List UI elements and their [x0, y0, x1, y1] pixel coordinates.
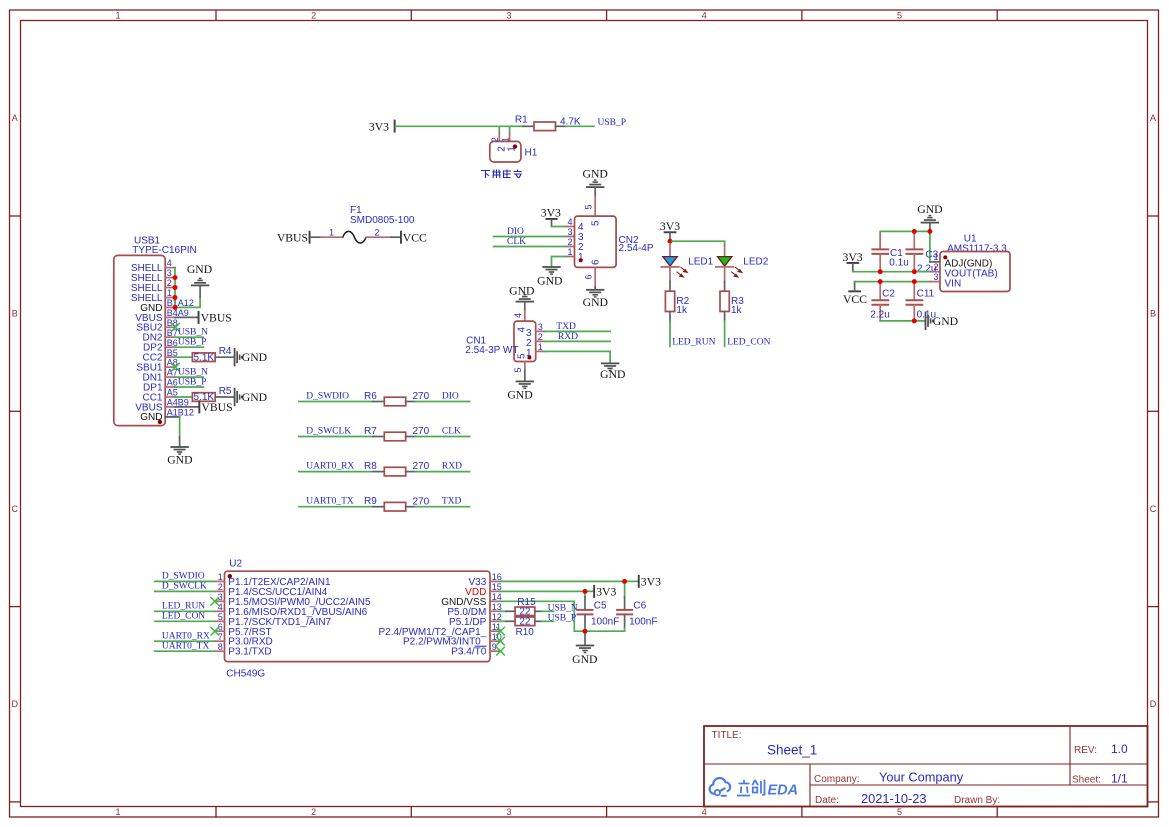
svg-text:1: 1: [501, 137, 511, 142]
ground (R4): [234, 348, 243, 366]
svg-text:UART0_RX: UART0_RX: [162, 631, 210, 641]
svg-text:C: C: [1150, 504, 1157, 514]
svg-text:VBUS: VBUS: [201, 311, 232, 324]
wire DN2 / net USB_N: [175, 336, 203, 338]
connector CN2 2.54-4P: [594, 197, 596, 216]
svg-text:2: 2: [538, 332, 543, 342]
svg-text:R8: R8: [364, 461, 377, 472]
svg-text:270: 270: [413, 426, 430, 437]
svg-text:4: 4: [513, 313, 523, 318]
svg-text:3: 3: [506, 807, 511, 817]
svg-text:4: 4: [702, 11, 707, 21]
svg-text:100nF: 100nF: [591, 616, 619, 627]
svg-text:14: 14: [492, 592, 502, 602]
ground symbol (USB1 shell): [199, 286, 201, 297]
svg-text:VBUS: VBUS: [201, 401, 232, 414]
svg-text:Company:: Company:: [814, 774, 860, 785]
svg-text:B1A12: B1A12: [167, 298, 194, 308]
svg-text:16: 16: [492, 572, 502, 582]
svg-text:R15: R15: [517, 597, 536, 608]
svg-text:5: 5: [584, 204, 594, 209]
svg-text:GND: GND: [583, 296, 608, 309]
wire to net LED_RUN: [669, 321, 671, 347]
svg-text:CLK: CLK: [442, 427, 461, 437]
no-connect U2 pin6: [211, 627, 220, 636]
wire LED_CON (U2 pin5): [155, 620, 215, 622]
svg-text:B: B: [12, 309, 18, 319]
svg-text:1k: 1k: [731, 305, 743, 316]
svg-text:H1: H1: [525, 148, 538, 159]
svg-text:3V3: 3V3: [843, 251, 863, 264]
capacitor C3 2.2u: [913, 233, 915, 249]
wire 3V3 to H1/R1: [396, 125, 510, 127]
svg-text:USB_N: USB_N: [178, 367, 208, 377]
wire DIO to CN2 pin3: [494, 236, 566, 238]
svg-text:3: 3: [167, 268, 172, 278]
svg-text:2: 2: [311, 11, 316, 21]
svg-text:2: 2: [490, 137, 500, 142]
wire D_SWDIO (U2 pin1): [155, 580, 215, 582]
svg-text:TYPE-C16PIN: TYPE-C16PIN: [132, 245, 196, 256]
svg-text:D_SWDIO: D_SWDIO: [162, 572, 205, 582]
svg-text:DIO: DIO: [442, 392, 459, 402]
svg-text:GND: GND: [933, 315, 958, 328]
svg-text:4: 4: [167, 258, 172, 268]
capacitor C11 0.1u: [913, 283, 915, 300]
svg-text:Sheet_1: Sheet_1: [767, 743, 817, 758]
LED2 (green): [724, 245, 726, 256]
svg-text:TXD: TXD: [442, 497, 462, 507]
svg-text:B5: B5: [167, 348, 178, 358]
wire 3V3 to CN2 pin4: [552, 226, 566, 228]
svg-text:D_SWCLK: D_SWCLK: [162, 582, 207, 592]
svg-text:LED2: LED2: [743, 256, 768, 267]
svg-text:C5: C5: [594, 601, 607, 612]
svg-text:5: 5: [897, 807, 902, 817]
power port VCC: [400, 231, 402, 244]
svg-text:R10: R10: [516, 627, 535, 638]
ground (R5): [234, 388, 243, 406]
svg-text:SMD0805-100: SMD0805-100: [350, 215, 415, 226]
svg-text:1: 1: [538, 342, 543, 352]
svg-text:3: 3: [567, 227, 572, 237]
svg-text:A1B12: A1B12: [167, 408, 194, 418]
svg-text:R9: R9: [364, 496, 377, 507]
svg-text:3V3: 3V3: [596, 585, 616, 598]
wire DN1 / net USB_N: [175, 376, 203, 378]
capacitor C1 0.1u: [879, 233, 881, 249]
wire VDD to 3V3: [500, 590, 593, 592]
svg-text:9: 9: [492, 642, 497, 652]
no-connect U2 pins 11,10,9: [496, 627, 505, 636]
svg-text:TITLE:: TITLE:: [712, 730, 742, 741]
svg-text:UART0_TX: UART0_TX: [306, 497, 354, 507]
svg-text:Drawn By:: Drawn By:: [954, 795, 1000, 806]
wire SHELL bus to GND: [175, 268, 200, 308]
svg-text:2.54-4P: 2.54-4P: [619, 243, 654, 254]
svg-text:USB_N: USB_N: [178, 328, 208, 338]
svg-text:GND: GND: [187, 263, 212, 276]
svg-text:1k: 1k: [676, 305, 688, 316]
svg-text:270: 270: [413, 496, 430, 507]
wire CN2 pin1 to ground: [552, 257, 566, 266]
svg-text:DIO: DIO: [507, 227, 524, 237]
svg-text:VCC: VCC: [403, 232, 427, 245]
svg-text:USB_P: USB_P: [178, 377, 207, 387]
svg-text:USB_P: USB_P: [178, 338, 207, 348]
svg-text:GND: GND: [242, 391, 267, 404]
svg-text:5: 5: [897, 11, 902, 21]
svg-text:LED1: LED1: [688, 256, 713, 267]
svg-text:2021-10-23: 2021-10-23: [861, 791, 926, 806]
svg-text:P3.4/T0: P3.4/T0: [451, 647, 486, 658]
svg-text:C11: C11: [917, 289, 935, 300]
wire CLK to CN2 pin2: [494, 246, 566, 248]
no-connect SBU2: [171, 323, 180, 332]
svg-text:LED_RUN: LED_RUN: [162, 602, 205, 612]
svg-text:4: 4: [702, 807, 707, 817]
svg-text:GND: GND: [583, 167, 608, 180]
svg-text:2: 2: [375, 227, 380, 237]
svg-text:5: 5: [591, 220, 602, 226]
svg-text:270: 270: [413, 461, 430, 472]
svg-text:12: 12: [492, 612, 502, 622]
svg-text:RXD: RXD: [558, 332, 578, 342]
U1 pin1 stub: [930, 261, 940, 263]
svg-text:3V3: 3V3: [641, 575, 661, 588]
svg-text:1: 1: [115, 807, 120, 817]
resistor R5 5.1K: [175, 396, 192, 398]
svg-text:USB_P: USB_P: [598, 118, 627, 128]
resistor R6 270: [299, 401, 373, 403]
connector CN1 2.54-3P WT: [524, 311, 526, 321]
power port VBUS (pin A4B9): [175, 406, 198, 408]
svg-text:2: 2: [567, 237, 572, 247]
svg-text:A4B9: A4B9: [167, 398, 189, 408]
title block: [704, 726, 1148, 807]
svg-text:1: 1: [329, 227, 334, 237]
svg-text:LED_RUN: LED_RUN: [672, 337, 715, 347]
svg-text:100nF: 100nF: [629, 616, 657, 627]
ground (U1 caps): [925, 312, 934, 330]
resistor R15 22: [500, 610, 506, 612]
svg-text:RXD: RXD: [442, 462, 462, 472]
svg-text:GND: GND: [242, 351, 267, 364]
svg-text:GND: GND: [537, 275, 562, 288]
ground below CN1 (pin5): [524, 362, 526, 371]
svg-text:LED_CON: LED_CON: [727, 337, 770, 347]
svg-text:C2: C2: [882, 289, 895, 300]
svg-text:5: 5: [218, 612, 223, 622]
svg-text:C6: C6: [633, 601, 646, 612]
svg-text:CLK: CLK: [507, 237, 526, 247]
H1 chinese caption: [481, 170, 522, 179]
svg-text:2: 2: [311, 807, 316, 817]
svg-text:R7: R7: [364, 426, 377, 437]
svg-text:A: A: [12, 113, 18, 123]
svg-text:A: A: [1150, 113, 1156, 123]
svg-text:A7: A7: [167, 368, 178, 378]
wire LED_RUN (U2 pin4): [155, 610, 215, 612]
svg-text:1: 1: [218, 572, 223, 582]
svg-text:6: 6: [591, 259, 602, 265]
svg-text:8: 8: [218, 642, 223, 652]
svg-text:1: 1: [934, 252, 939, 262]
capacitor C5 100nF: [584, 591, 586, 597]
svg-text:2.2u: 2.2u: [870, 309, 889, 320]
svg-text:VIN: VIN: [945, 278, 962, 289]
wire V33 to 3V3: [500, 580, 638, 582]
svg-text:6: 6: [584, 274, 594, 279]
svg-text:5: 5: [513, 367, 523, 372]
svg-text:2: 2: [934, 262, 939, 272]
svg-text:1/1: 1/1: [1111, 772, 1128, 786]
svg-text:R1: R1: [515, 115, 528, 126]
svg-text:GND: GND: [167, 454, 192, 467]
svg-text:P3.1/TXD: P3.1/TXD: [228, 647, 271, 658]
resistor R4 5.1K: [175, 356, 192, 358]
svg-text:GND: GND: [509, 284, 534, 297]
svg-text:7: 7: [218, 632, 223, 642]
svg-text:B6: B6: [167, 338, 178, 348]
wire to net LED_CON: [724, 321, 726, 347]
svg-text:3: 3: [934, 272, 939, 282]
resistor R8 270: [299, 471, 373, 473]
junction dots overlay: [173, 275, 178, 280]
wire top gnd rail: [880, 231, 930, 262]
svg-text:CH549G: CH549G: [226, 669, 265, 680]
power port VBUS (pin B4A9): [175, 316, 198, 318]
svg-text:B: B: [1150, 309, 1156, 319]
svg-text:1: 1: [167, 288, 172, 298]
svg-text:15: 15: [492, 582, 502, 592]
svg-text:3: 3: [538, 322, 543, 332]
svg-text:Your Company: Your Company: [879, 770, 964, 785]
svg-text:R4: R4: [219, 346, 232, 357]
resistor R9 270: [299, 506, 373, 508]
svg-text:GND: GND: [572, 653, 597, 666]
wire UART0_TX (U2 pin8): [155, 650, 215, 652]
wire GND pin A1B12: [165, 416, 179, 418]
capacitor C6 100nF: [624, 581, 626, 597]
svg-text:R6: R6: [364, 391, 377, 402]
wire CN1 pin2 / net RXD: [544, 340, 610, 342]
svg-text:D: D: [1150, 699, 1157, 709]
svg-text:Sheet:: Sheet:: [1072, 775, 1101, 786]
wire VCC rail to VIN: [855, 281, 931, 283]
wire D_SWCLK (U2 pin2): [155, 590, 215, 592]
svg-text:1: 1: [567, 247, 572, 257]
svg-text:1: 1: [115, 11, 120, 21]
resistor R7 270: [299, 436, 373, 438]
no-connect U2 pin3: [211, 597, 220, 606]
LCEDA logo: [710, 778, 730, 796]
svg-text:270: 270: [413, 391, 430, 402]
node 3V3/LED junction: [668, 239, 673, 244]
svg-text:USB_N: USB_N: [548, 603, 578, 613]
svg-text:UART0_RX: UART0_RX: [306, 462, 354, 472]
svg-text:GND: GND: [600, 368, 625, 381]
resistor R1: [523, 125, 534, 127]
svg-text:4: 4: [567, 217, 572, 227]
svg-text:4.7K: 4.7K: [560, 117, 581, 128]
svg-text:D_SWCLK: D_SWCLK: [306, 427, 351, 437]
ground (USB1 GND): [170, 446, 188, 455]
wire GND/VSS to gnd rail: [500, 601, 625, 631]
svg-text:VCC: VCC: [843, 293, 867, 306]
svg-text:2.54-3P WT: 2.54-3P WT: [465, 345, 518, 356]
svg-text:B4A9: B4A9: [167, 308, 189, 318]
svg-text:U2: U2: [229, 559, 242, 570]
wire UART0_RX (U2 pin7): [155, 640, 215, 642]
svg-text:2: 2: [218, 582, 223, 592]
svg-text:D_SWDIO: D_SWDIO: [306, 392, 349, 402]
wire CN1 pin3 / net TXD: [544, 330, 610, 332]
svg-text:3V3: 3V3: [369, 121, 389, 134]
wire CN1 pin1 to ground: [544, 351, 610, 362]
svg-text:C: C: [12, 504, 19, 514]
svg-text:UART0_TX: UART0_TX: [162, 641, 210, 651]
no-connect SBU1: [171, 363, 180, 372]
wire to LED2: [672, 241, 725, 245]
resistor R2 1k: [669, 282, 671, 292]
svg-text:D: D: [12, 699, 19, 709]
svg-text:GND: GND: [917, 203, 942, 216]
fuse F1: [321, 236, 343, 238]
ground below CN2 (pin6): [594, 267, 596, 286]
header H1: [499, 133, 509, 141]
svg-text:3V3: 3V3: [660, 220, 680, 233]
wire DP2 / net USB_P: [175, 346, 203, 348]
svg-text:VBUS: VBUS: [277, 232, 308, 245]
svg-text:LED_CON: LED_CON: [162, 612, 205, 622]
wire DP1 / net USB_P: [175, 386, 203, 388]
wire bottom gnd rail: [880, 320, 924, 322]
svg-text:2: 2: [167, 278, 172, 288]
LED1 (blue): [669, 244, 671, 257]
svg-text:A5: A5: [167, 388, 178, 398]
resistor R10 22: [500, 620, 506, 622]
svg-text:1.0: 1.0: [1111, 742, 1128, 756]
svg-text:3V3: 3V3: [541, 207, 561, 220]
svg-text:R5: R5: [219, 386, 232, 397]
svg-text:3: 3: [506, 11, 511, 21]
svg-text:0.1u: 0.1u: [889, 257, 908, 268]
svg-text:5.1K: 5.1K: [194, 352, 215, 363]
wire 3V3 rail to VOUT: [853, 271, 931, 273]
svg-text:TXD: TXD: [556, 322, 576, 332]
svg-text:13: 13: [492, 602, 502, 612]
svg-text:GND: GND: [507, 388, 532, 401]
svg-text:A6: A6: [167, 378, 178, 388]
svg-text:22: 22: [519, 617, 531, 628]
capacitor C2 2.2u: [879, 283, 881, 300]
resistor R3 1k: [724, 282, 726, 292]
svg-text:REV:: REV:: [1074, 745, 1097, 756]
svg-text:Date:: Date:: [815, 795, 839, 806]
svg-text:USB_P: USB_P: [548, 613, 577, 623]
svg-text:4: 4: [218, 602, 223, 612]
svg-text:EDA: EDA: [768, 783, 799, 799]
ground (C5/C6): [584, 631, 586, 644]
